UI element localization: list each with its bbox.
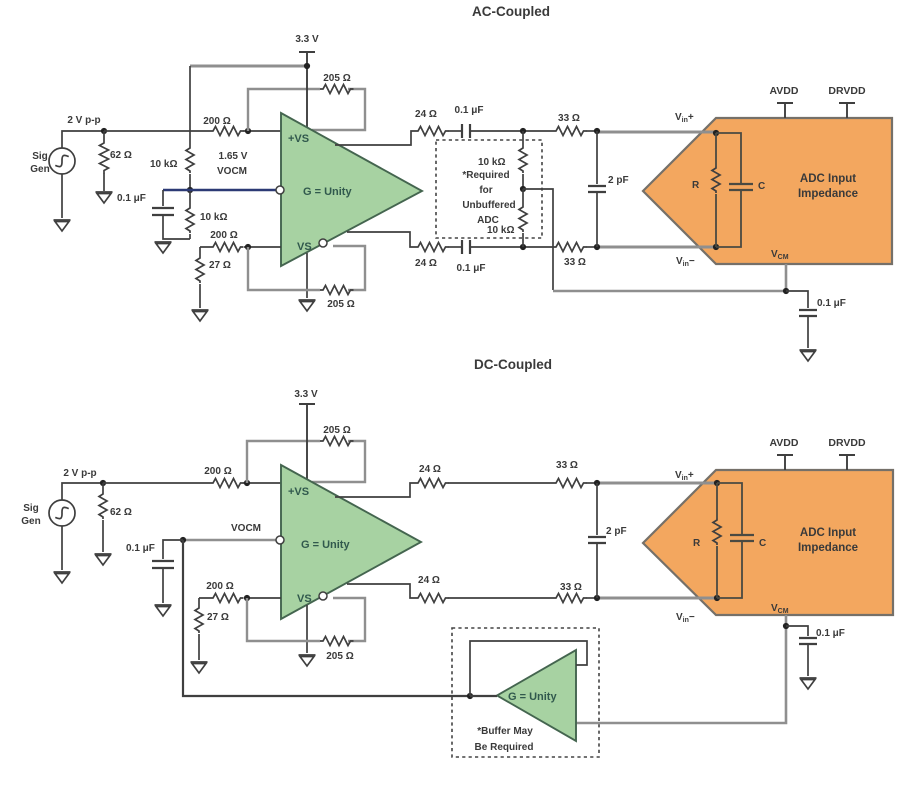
svg-text:33 Ω: 33 Ω [556,460,578,471]
wire Vin- rail overlay [640,246,716,249]
wire sig gen to ground (DC) [61,526,63,570]
resistor 24 ohm top output (DC) [415,479,449,488]
capacitor 2 pF shunt (DC) [596,483,598,598]
svg-text:200 Ω: 200 Ω [204,466,231,477]
node 2pF bottom (DC) [594,595,600,601]
node Vin- internal (DC) [714,595,720,601]
svg-text:205 Ω: 205 Ω [323,73,350,84]
svg-text:10 kΩ: 10 kΩ [200,212,227,223]
node feedback tap bottom [245,244,251,250]
resistor 33 ohm bottom (DC) [553,594,587,603]
node 2pF top (DC) [594,480,600,486]
node VCM junction (DC) [783,623,789,629]
wire feedback loop top (DC) [247,441,365,483]
pin VOCM circle (DC) [276,536,284,544]
resistor 10 kohm pulldown bottom [522,189,524,205]
sig gen source SG1 [49,148,75,174]
svg-text:*Required: *Required [462,170,509,181]
svg-text:3.3 V: 3.3 V [294,389,318,400]
wire buffer feedback loop [470,641,587,696]
ground under 0.1uF [155,242,172,253]
svg-text:205 Ω: 205 Ω [326,651,353,662]
svg-text:200 Ω: 200 Ω [206,581,233,592]
svg-text:G = Unity: G = Unity [301,539,350,551]
ground under 62 ohm (DC) [95,554,112,565]
svg-text:R: R [692,180,700,191]
wire VOCM to buffer output [183,540,470,696]
ground under sig gen [54,220,71,231]
svg-text:0.1 μF: 0.1 μF [126,543,155,554]
capacitor 0.1uF at VOCM [162,190,164,206]
svg-text:AVDD: AVDD [770,437,799,449]
resistor 33 ohm bottom [553,243,587,252]
node feedback tap bottom (DC) [244,595,250,601]
wire sig gen to input rail [62,131,104,148]
svg-text:62 Ω: 62 Ω [110,150,132,161]
capacitor 0.1uF at VOCM (DC) [163,540,183,559]
svg-text:0.1 μF: 0.1 μF [457,263,486,274]
resistor 205 ohm top feedback (DC) [320,437,354,446]
dashed box unbuffered ADC network [436,140,542,238]
node 10k midpoint [520,186,526,192]
node feedback tap top (DC) [244,480,250,486]
svg-text:1.65 V: 1.65 V [219,151,248,162]
wire 33 ohm to ADC Vin+ (DC) [586,482,597,484]
svg-text:AC-Coupled: AC-Coupled [472,4,550,19]
ground under amp [299,300,316,311]
svg-text:205 Ω: 205 Ω [327,299,354,310]
node 3.3V tee [304,63,310,69]
svg-text:0.1 μF: 0.1 μF [817,298,846,309]
wire Vin+ rail overlay [640,131,716,134]
wire -VS to ground [306,253,308,298]
wire 33 ohm to ADC Vin- (DC) [586,597,597,599]
svg-text:33 Ω: 33 Ω [560,582,582,593]
ground under 27 ohm (DC) [191,662,208,673]
svg-text:AVDD: AVDD [770,85,799,97]
resistor 205 ohm bottom feedback [320,286,354,295]
svg-text:24 Ω: 24 Ω [415,258,437,269]
svg-text:33 Ω: 33 Ω [558,113,580,124]
node feedback tap top [245,128,251,134]
wire amp output bottom (DC) [347,584,415,598]
node Vin+ internal [713,130,719,136]
wire Vin+ rail overlay (DC) [640,482,717,485]
wire 33 ohm to ADC Vin- [586,246,597,248]
wire 3.3V rail to divider [190,65,307,68]
capacitor 0.1uF series bottom [462,240,470,254]
svg-text:DRVDD: DRVDD [828,437,866,449]
svg-text:205 Ω: 205 Ω [323,425,350,436]
svg-text:62 Ω: 62 Ω [110,507,132,518]
dashed box buffer [452,628,599,757]
svg-text:10 kΩ: 10 kΩ [487,225,514,236]
wire amp output bottom [347,232,415,247]
wire feedback loop bottom (DC) [247,598,365,641]
resistor 33 ohm top [553,127,587,136]
pin DRVDD (DC) [839,455,855,470]
wire 200 ohm to amp input [243,130,281,132]
wire input to 200 ohm [104,130,210,132]
resistor 62 ohm shunt (DC) [102,483,104,492]
resistor 205 ohm top feedback [320,85,354,94]
svg-text:24 Ω: 24 Ω [415,109,437,120]
capacitor C internal (DC) [717,483,742,598]
node 2pF top [594,128,600,134]
wire to 33 ohm (DC) [448,482,553,484]
capacitor 0.1uF series top [462,124,470,138]
wire amp output top (DC) [335,483,415,497]
node Vin+ internal (DC) [714,480,720,486]
node Vin- internal [713,244,719,250]
resistor 24 ohm bottom output [415,243,449,252]
node VCM junction [783,288,789,294]
svg-text:33 Ω: 33 Ω [564,257,586,268]
wire VOCM net (navy) [163,189,276,191]
svg-text:G = Unity: G = Unity [508,691,557,703]
svg-text:ADC Input: ADC Input [800,173,856,185]
ground under 0.1uF (DC) [155,605,172,616]
wire feedback loop top [248,89,365,131]
wire VCM pin down (DC) [576,615,786,723]
wire to 0.1uF [448,130,462,132]
resistor R internal [715,133,717,166]
node input junction (DC) [100,480,106,486]
svg-text:for: for [479,185,492,196]
resistor 200 ohm bottom input [210,240,244,254]
wire input to 200 ohm (DC) [103,482,210,484]
node VOCM junction (DC) [180,537,186,543]
wire to 10k node bottom [470,246,553,248]
svg-text:G = Unity: G = Unity [303,186,352,198]
node VOCM divider [187,187,193,193]
resistor 27 ohm to ground (DC) [198,598,200,606]
wire midpoint to VCM [523,189,553,290]
wire sig gen to ground [61,174,63,218]
node 2pF bottom [594,244,600,250]
wire to 10k node [470,130,553,132]
resistor 205 ohm bottom feedback (DC) [320,637,354,646]
pin DRVDD [839,103,855,118]
pin AVDD [777,103,793,118]
svg-text:Gen: Gen [21,516,40,527]
resistor 200 ohm top input (DC) [210,479,244,488]
ground under VCM cap (DC) [800,678,817,689]
svg-text:2 pF: 2 pF [608,175,629,186]
svg-text:2 V p-p: 2 V p-p [67,115,100,126]
wire buffer output to tip [470,695,497,697]
ground under 27 ohm [192,310,209,321]
wire to 0.1uF bottom [448,246,462,248]
svg-text:Gen: Gen [30,164,49,175]
svg-text:DC-Coupled: DC-Coupled [474,357,552,372]
wire to 33 ohm bottom (DC) [448,597,553,599]
ground under VCM cap [800,350,817,361]
wire VCM pin down [785,264,788,291]
resistor 62 ohm shunt [103,131,105,140]
node top rail 10k [520,128,526,134]
ADC input impedance block (DC) [643,470,893,615]
wire Vin- rail overlay (DC) [640,597,717,600]
node input junction [101,128,107,134]
wire sig gen to input rail (DC) [62,483,103,500]
wire 200 ohm to amp input (DC) [243,482,281,484]
svg-text:2 V p-p: 2 V p-p [63,468,96,479]
resistor 24 ohm bottom output (DC) [415,594,449,603]
sig gen source SG2 [49,500,75,526]
svg-text:0.1 μF: 0.1 μF [816,628,845,639]
svg-text:ADC Input: ADC Input [800,527,856,539]
supply 3.3V pin [299,52,315,127]
svg-text:Impedance: Impedance [798,188,858,200]
svg-text:Sig: Sig [32,151,48,162]
node buffer output [467,693,473,699]
ground under sig gen (DC) [54,572,71,583]
svg-text:24 Ω: 24 Ω [419,464,441,475]
ground under amp (DC) [299,655,316,666]
wire amp input bottom (DC) [199,597,281,599]
wire amp output top [335,131,415,145]
svg-text:Unbuffered: Unbuffered [462,200,515,211]
op-amp U1 [281,113,422,266]
buffer op-amp U3 [497,650,576,741]
wire 33 ohm to ADC Vin+ [586,130,597,132]
capacitor C internal [716,133,741,247]
capacitor 0.1uF at VCM (DC) [786,626,808,636]
resistor R internal (DC) [716,483,718,518]
wire amp input bottom [200,246,281,248]
pin AVDD (DC) [777,455,793,470]
svg-text:0.1 μF: 0.1 μF [117,193,146,204]
svg-text:10 kΩ: 10 kΩ [478,157,505,168]
resistor 10 kohm lower divider [189,190,191,206]
svg-text:R: R [693,538,701,549]
supply 3.3V pin (DC) [299,404,315,479]
svg-text:10 kΩ: 10 kΩ [150,159,177,170]
capacitor 0.1uF at VCM [786,291,808,308]
svg-text:DRVDD: DRVDD [828,85,866,97]
resistor 10 kohm upper divider [189,66,191,146]
wire feedback loop bottom [248,246,365,290]
ADC input impedance block [643,118,892,264]
wire -VS to ground (DC) [306,605,308,653]
resistor 200 ohm top input [210,127,244,136]
resistor 10 kohm pulldown top [522,131,524,146]
svg-text:VOCM: VOCM [231,523,261,534]
svg-text:2 pF: 2 pF [606,526,627,537]
resistor 24 ohm top output [415,127,449,136]
svg-text:C: C [759,538,766,549]
svg-text:24 Ω: 24 Ω [418,575,440,586]
svg-text:VS: VS [297,593,312,605]
pin VOCM circle [276,186,284,194]
svg-text:3.3 V: 3.3 V [295,34,319,45]
node bottom rail 10k [520,244,526,250]
svg-text:27 Ω: 27 Ω [207,612,229,623]
svg-text:Impedance: Impedance [798,542,858,554]
ground under 62 ohm [96,192,113,203]
op-amp U2 [281,465,421,619]
svg-text:*Buffer May: *Buffer May [477,726,533,737]
svg-text:200 Ω: 200 Ω [203,116,230,127]
svg-text:+VS: +VS [288,133,309,145]
svg-text:27 Ω: 27 Ω [209,260,231,271]
svg-text:Sig: Sig [23,503,39,514]
resistor 27 ohm to ground [199,247,201,256]
svg-text:200 Ω: 200 Ω [210,230,237,241]
resistor 33 ohm top (DC) [553,479,587,488]
svg-text:VOCM: VOCM [217,166,247,177]
svg-text:0.1 μF: 0.1 μF [455,105,484,116]
wire VOCM net (DC) [183,539,276,541]
svg-text:C: C [758,181,765,192]
resistor 200 ohm bottom input (DC) [210,591,244,605]
svg-text:VS: VS [297,241,312,253]
svg-text:+VS: +VS [288,486,309,498]
svg-text:Be Required: Be Required [475,742,534,753]
capacitor 2 pF shunt [596,131,598,247]
